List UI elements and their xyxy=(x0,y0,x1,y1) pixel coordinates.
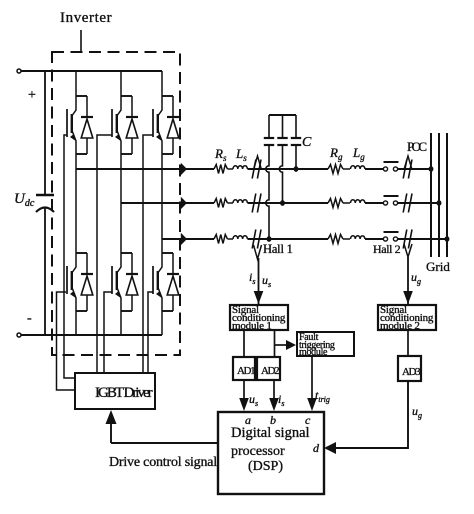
svg-text:module: module xyxy=(299,347,328,358)
svg-text:processor: processor xyxy=(231,444,285,459)
svg-text:module 2: module 2 xyxy=(380,320,420,332)
svg-text:Hall 1: Hall 1 xyxy=(263,242,293,256)
svg-text:(DSP): (DSP) xyxy=(248,459,283,474)
svg-text:Grid: Grid xyxy=(426,259,450,274)
svg-text:AD1: AD1 xyxy=(237,365,255,377)
svg-text:Hall 2: Hall 2 xyxy=(373,242,401,256)
svg-text:AD3: AD3 xyxy=(402,366,421,378)
svg-text:Digital signal: Digital signal xyxy=(231,425,310,441)
svg-text:POC: POC xyxy=(407,139,426,154)
svg-text:d: d xyxy=(313,441,320,455)
svg-text:IGBT Driver: IGBT Driver xyxy=(95,385,153,401)
svg-text:Inverter: Inverter xyxy=(60,10,112,26)
svg-text:module 1: module 1 xyxy=(232,320,272,332)
svg-text:+: + xyxy=(28,88,36,103)
svg-text:C: C xyxy=(302,135,312,150)
svg-text:AD2: AD2 xyxy=(261,365,279,377)
svg-text:-: - xyxy=(27,311,32,326)
svg-text:Drive control signal: Drive control signal xyxy=(109,455,217,470)
